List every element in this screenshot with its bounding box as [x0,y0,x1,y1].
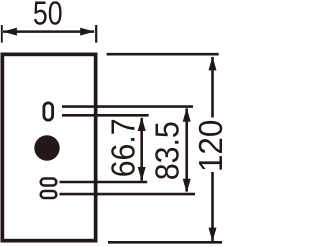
svg-text:83.5: 83.5 [148,121,185,180]
svg-text:120: 120 [192,120,226,172]
svg-text:50: 50 [33,0,63,32]
svg-text:66.7: 66.7 [104,118,142,177]
